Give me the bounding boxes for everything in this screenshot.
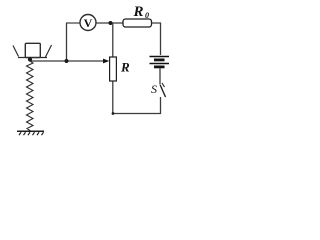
voltmeter V xyxy=(80,15,96,31)
wire: top horizontal from left branch to voltmeter xyxy=(66,22,80,24)
ground xyxy=(17,131,44,135)
resistor R0 (box) xyxy=(123,19,152,27)
svg-text:S: S xyxy=(151,82,157,96)
wiper arrow pointing at rheostat xyxy=(103,59,109,64)
rheostat R (vertical resistor body) xyxy=(110,57,117,81)
wire: rheostat bottom lead down to bottom wire xyxy=(112,81,114,114)
wire: R0 to top-right corner and down to battery xyxy=(152,23,161,55)
node: junction dot on top wire xyxy=(109,21,113,25)
block on pan xyxy=(25,43,40,57)
battery (two cells) xyxy=(150,57,170,69)
pan left rim xyxy=(13,46,19,57)
switch S (open blade) xyxy=(160,83,165,97)
node: pan/spring junction dot xyxy=(28,57,32,61)
pan right rim xyxy=(46,45,52,57)
wire: left vertical (voltmeter branch down to pan wire) xyxy=(66,23,68,61)
svg-text:V: V xyxy=(84,16,93,30)
node: junction dot on pan wire xyxy=(65,59,69,63)
node: bottom-left corner dot xyxy=(112,112,115,115)
wire: junction down to rheostat top xyxy=(112,23,114,57)
wire: battery to switch xyxy=(159,69,161,85)
wire: switch down to bottom-right corner xyxy=(160,97,162,114)
pan platform line xyxy=(18,57,47,59)
svg-text:R: R xyxy=(133,4,144,20)
wire: voltmeter to resistor R0 xyxy=(96,22,123,24)
wire: bottom horizontal xyxy=(113,113,162,115)
wire: pan to wiper arrow xyxy=(30,60,104,62)
spring xyxy=(27,61,34,131)
svg-text:0: 0 xyxy=(145,11,149,20)
svg-text:R: R xyxy=(120,60,130,75)
